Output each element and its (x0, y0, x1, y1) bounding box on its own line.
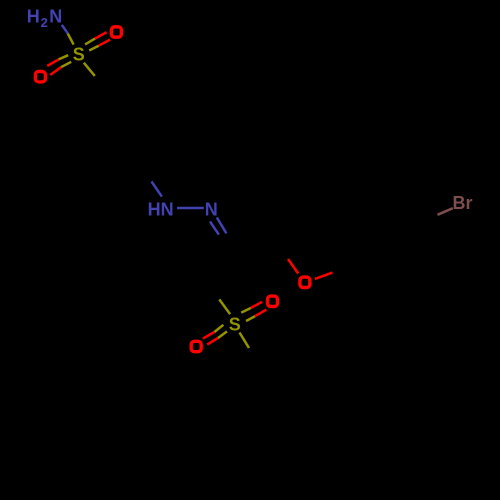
svg-text:N: N (49, 7, 62, 27)
bond N1-S1 (62, 25, 74, 45)
atom O4 label (furan oxygen) (300, 277, 310, 287)
atom O2 label (111, 27, 121, 37)
bond S2=O6 double (lower left) (203, 325, 227, 345)
bond N3-N2 (177, 207, 204, 210)
bond C4-N3 half (ring to NH) (152, 182, 162, 197)
bond S1-C1 half (to phenyl ring, rest invisible) (84, 63, 95, 76)
svg-text:S: S (229, 314, 241, 334)
bond S2-Cphenyl half (240, 333, 250, 349)
atom N1 label H2N (27, 6, 63, 30)
svg-text:S: S (73, 45, 85, 65)
svg-text:HN: HN (148, 199, 174, 219)
svg-text:Br: Br (452, 193, 472, 213)
bond O4-C7a half (315, 273, 333, 279)
svg-text:H: H (27, 6, 40, 26)
svg-text:N: N (205, 199, 218, 219)
svg-text:2: 2 (41, 15, 48, 30)
atom O5 label (268, 296, 278, 306)
atom O6 label (191, 341, 201, 351)
bond S2=O5 double (upper right) (241, 302, 266, 321)
bond N2=C5 double halves (210, 217, 226, 234)
bond S1=O3 double (lower left) (47, 55, 71, 75)
bond CH2-S2 half (219, 299, 230, 314)
bond S1=O2 double (upper right) (85, 32, 110, 50)
bond C2-O4 half (furan) (288, 259, 298, 274)
bond C5ar-Br half (438, 208, 453, 215)
atom O3 label (35, 72, 45, 82)
